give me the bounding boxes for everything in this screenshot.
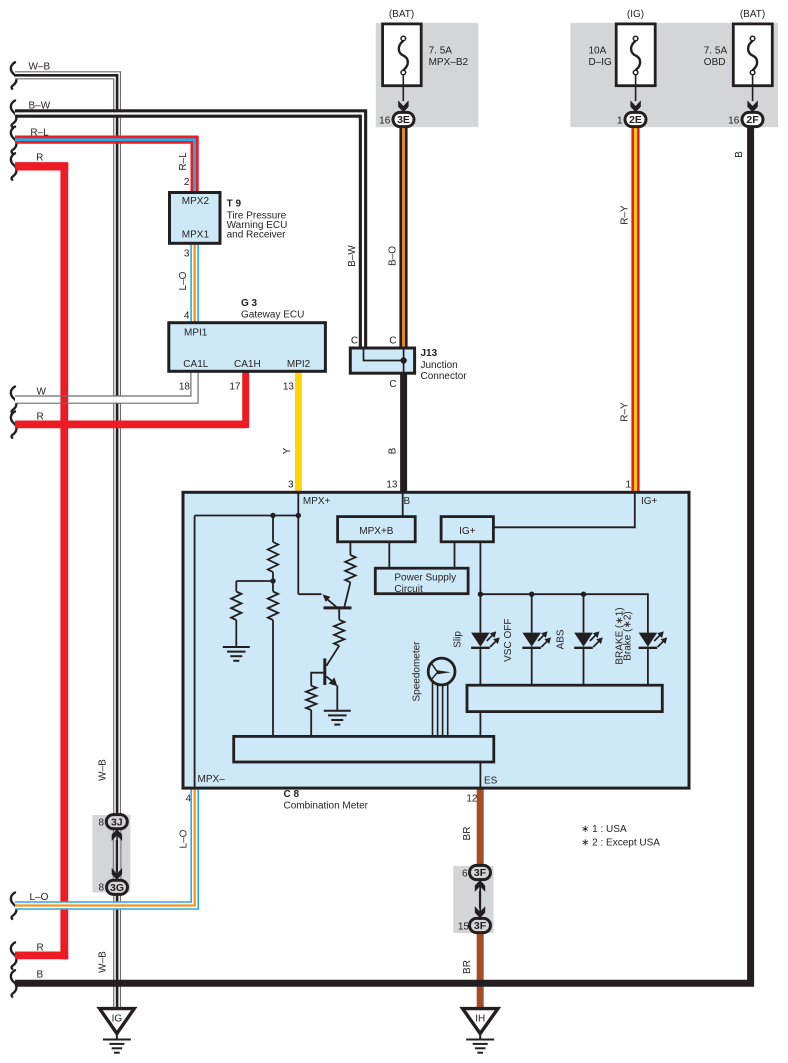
svg-text:ES: ES <box>484 776 498 787</box>
svg-text:B: B <box>387 447 398 454</box>
svg-text:Speedometer: Speedometer <box>412 641 423 702</box>
wire to Slip LED <box>479 594 481 632</box>
resistor R-b to ground <box>235 581 237 592</box>
transistor Q1 emitter arrow <box>323 594 331 602</box>
svg-text:8: 8 <box>98 882 104 893</box>
wire R middle from left edge to Gateway ECU CA1H <box>15 420 246 428</box>
svg-text:L–O: L–O <box>178 271 189 290</box>
block Power Supply Circuit box <box>375 568 468 594</box>
resistor R-a lower <box>272 581 274 592</box>
svg-text:B: B <box>37 970 44 981</box>
ground point IH stem <box>479 1034 481 1040</box>
svg-text:IH: IH <box>475 1014 485 1025</box>
svg-text:4: 4 <box>184 311 190 322</box>
fuse block background left (BAT) <box>376 23 479 127</box>
resistor R-c under MPX+B <box>349 542 351 555</box>
connector 3G <box>107 880 128 894</box>
junction connector J13 box <box>350 348 414 373</box>
svg-text:R–L: R–L <box>30 128 49 139</box>
wire B-W (black/white) from left edge to junction connector J13 <box>15 114 363 349</box>
svg-text:MPX–B2: MPX–B2 <box>429 57 469 68</box>
continuation symbol for wire R middle <box>11 411 17 437</box>
arrow into connector 2E <box>630 100 640 112</box>
resistor R-a upper <box>272 516 274 543</box>
svg-text:3F: 3F <box>474 867 487 879</box>
LED ABS <box>574 633 593 647</box>
svg-text:J13: J13 <box>421 348 438 359</box>
svg-text:Slip: Slip <box>453 631 464 648</box>
svg-text:BR: BR <box>462 960 473 974</box>
ECU G3 box <box>169 323 326 372</box>
svg-text:G 3: G 3 <box>241 298 258 309</box>
ground point IH triangle <box>463 1009 498 1034</box>
svg-text:B–W: B–W <box>29 100 51 111</box>
svg-text:R–L: R–L <box>178 152 189 171</box>
wire W-B (white/black) from connector 3G to ground IG <box>113 894 121 1009</box>
svg-text:OBD: OBD <box>704 57 726 68</box>
svg-text:3G: 3G <box>110 882 124 894</box>
svg-text:R: R <box>37 412 44 423</box>
continuation symbol for wire W-B <box>11 62 17 88</box>
LED BRAKE <box>639 633 658 647</box>
svg-text:13: 13 <box>386 480 398 491</box>
ground symbol under R-b <box>223 646 250 648</box>
ground point IG triangle <box>100 1009 135 1034</box>
node dot at MPX+ line <box>296 513 301 518</box>
svg-text:7. 5A: 7. 5A <box>704 46 728 57</box>
svg-text:C 8: C 8 <box>284 789 300 800</box>
continuation symbol for wire W <box>11 387 17 413</box>
node dot at resistor branch <box>270 513 275 518</box>
connector 3J <box>106 815 127 829</box>
svg-text:6: 6 <box>462 868 468 879</box>
continuation symbol for wire R bottom <box>11 942 17 968</box>
node dot lamp rail at ABS <box>581 592 586 597</box>
ECU T9 box <box>170 193 221 244</box>
block IG+ box <box>441 517 493 542</box>
connector 3F lower <box>470 918 491 932</box>
svg-text:B: B <box>734 151 745 158</box>
connector 2E <box>625 112 646 126</box>
svg-text:∗ 2 : Except USA: ∗ 2 : Except USA <box>581 838 660 849</box>
wire BR thin link between 3F connectors <box>479 880 481 919</box>
svg-text:B–O: B–O <box>387 246 398 266</box>
svg-text:C: C <box>351 336 358 347</box>
connector 3E <box>393 112 414 126</box>
fuse block background right (IG/BAT) <box>571 23 779 127</box>
svg-text:Power Supply: Power Supply <box>394 573 456 584</box>
svg-text:IG: IG <box>112 1014 123 1025</box>
speedometer gauge <box>428 658 455 685</box>
svg-text:13: 13 <box>283 381 295 392</box>
wire internal left vertical MPX- <box>194 516 196 789</box>
svg-text:2E: 2E <box>629 114 642 126</box>
wire IG+ to Power Supply Circuit <box>454 542 456 568</box>
node dot lamp rail at VSC OFF <box>529 592 534 597</box>
svg-text:W: W <box>37 387 47 398</box>
wire fuse MPX-B2 to connector 3E <box>402 75 404 101</box>
LED VSC OFF <box>522 633 541 647</box>
svg-text:B–W: B–W <box>347 245 358 267</box>
continuation symbol for wire B bottom <box>11 970 17 996</box>
svg-text:C: C <box>389 336 396 347</box>
wire MPX+ internal vertical <box>297 493 299 594</box>
continuation symbol for wire B-W <box>11 101 17 127</box>
node dot lamp rail at Slip <box>478 592 483 597</box>
wire ES vertical <box>479 712 481 788</box>
wire to VSC OFF LED <box>531 594 533 632</box>
svg-text:D–IG: D–IG <box>589 57 613 68</box>
wire IG+ to lamp rail <box>479 542 481 594</box>
wire IG+ pin entry <box>493 493 634 527</box>
connector block 3J/3G background <box>92 815 130 892</box>
svg-text:10A: 10A <box>589 46 607 57</box>
wire B pin to MPX+B box <box>402 493 404 517</box>
svg-text:∗ 1 : USA: ∗ 1 : USA <box>581 824 627 835</box>
svg-text:3: 3 <box>184 249 190 260</box>
wire MPX+ to transistor Q1 emitter <box>298 593 321 595</box>
svg-text:and Receiver: and Receiver <box>227 230 287 241</box>
svg-text:Circuit: Circuit <box>394 584 423 595</box>
svg-text:MPX+B: MPX+B <box>359 526 394 537</box>
block MPX+B box <box>338 517 416 542</box>
svg-text:3J: 3J <box>111 816 123 828</box>
svg-text:MPX2: MPX2 <box>182 196 210 207</box>
wire L-O (lightblue/orange) from Combination Meter pin 4 to left edge <box>15 789 195 906</box>
wire W-B (white/black) from left edge down to connector 3J <box>15 75 117 815</box>
wire B (black) from junction connector J13 to Combination Meter pin 13 <box>400 373 407 494</box>
meter bottom bus bar box <box>234 736 494 762</box>
svg-text:W–B: W–B <box>98 759 109 781</box>
svg-text:L–O: L–O <box>30 892 49 903</box>
svg-text:(IG): (IG) <box>627 9 644 20</box>
svg-text:(BAT): (BAT) <box>740 9 765 20</box>
transistor Q2 emitter <box>326 677 332 682</box>
transistor Q2 base lead <box>311 673 323 686</box>
transistor Q1 base bar <box>324 606 352 609</box>
arrow into connector 2F <box>747 100 757 112</box>
svg-text:MPX+: MPX+ <box>303 496 331 507</box>
svg-text:CA1L: CA1L <box>183 359 208 370</box>
svg-text:12: 12 <box>466 794 478 805</box>
svg-text:3: 3 <box>288 480 294 491</box>
svg-text:VSC OFF: VSC OFF <box>503 619 514 662</box>
svg-text:2F: 2F <box>746 114 759 126</box>
svg-text:B: B <box>404 496 411 507</box>
svg-text:L–O: L–O <box>179 829 190 848</box>
svg-text:1: 1 <box>625 480 631 491</box>
svg-text:2: 2 <box>184 177 190 188</box>
Combination Meter C8 box <box>183 492 689 788</box>
wire branch to second resistor <box>236 580 273 582</box>
resistor R-e at Q2 base <box>306 686 316 710</box>
connector 2F <box>742 112 763 126</box>
wire to ABS LED <box>583 594 585 632</box>
fuse 7.5A MPX-B2 box <box>383 24 422 86</box>
arrow up below 3F upper <box>475 880 485 892</box>
arrow into connector 3E <box>398 100 408 112</box>
lamp bus bar box <box>467 685 662 711</box>
svg-text:IG+: IG+ <box>641 496 658 507</box>
svg-text:R: R <box>37 942 44 953</box>
wire L-O (lightblue/orange) from Tire Pressure ECU pin 3 to Gateway ECU pin 4 <box>190 243 199 324</box>
fuse 7.5A OBD box <box>733 24 772 86</box>
fuse 10A D-IG symbol <box>633 36 638 41</box>
wire B-O (black/orange) from connector 3E to junction connector J13 <box>399 126 407 348</box>
wire between 3F connectors <box>479 891 481 908</box>
connector 3F upper <box>470 865 491 879</box>
continuation symbol for wire L-O <box>11 893 17 919</box>
wire B (black) from connector 2F down and across bottom to left edge <box>15 126 751 983</box>
arrow down above 3F lower <box>475 906 485 918</box>
arrow down above 3G <box>112 868 122 880</box>
svg-text:16: 16 <box>379 115 391 126</box>
continuation symbol for wire R top <box>11 153 17 179</box>
lamp rail horizontal <box>480 594 648 632</box>
junction connector J13 through wire <box>403 349 405 372</box>
wire R-L (red/blue) from left edge to Tire Pressure ECU pin 2 <box>15 140 195 192</box>
wire W-B thin link between 3J and 3G <box>116 829 118 880</box>
connector block 3F background <box>453 866 493 933</box>
svg-text:Combination Meter: Combination Meter <box>284 801 369 812</box>
svg-text:IG+: IG+ <box>459 526 476 537</box>
wire BR (brown) from Combination Meter ES to connector 3F <box>477 788 484 866</box>
svg-text:3E: 3E <box>397 114 410 126</box>
wire Y (yellow) from Gateway ECU MPI2 to Combination Meter MPX+ <box>295 372 302 494</box>
junction connector J13 bus wire <box>364 349 404 360</box>
wire W (white) outline edges <box>15 372 191 397</box>
svg-text:Gateway ECU: Gateway ECU <box>241 310 304 321</box>
svg-text:Connector: Connector <box>421 371 468 382</box>
svg-text:MPX–: MPX– <box>198 774 226 785</box>
svg-text:R–Y: R–Y <box>619 205 630 225</box>
wire between 3J and 3G <box>116 840 118 872</box>
svg-text:C: C <box>389 379 396 390</box>
speedometer connection wires <box>432 682 434 736</box>
svg-text:Junction: Junction <box>421 360 458 371</box>
svg-text:R: R <box>36 153 43 164</box>
svg-text:8: 8 <box>98 817 104 828</box>
wire fuse OBD to connector 2F <box>752 75 754 101</box>
svg-text:MPI1: MPI1 <box>184 328 208 339</box>
svg-text:18: 18 <box>179 381 191 392</box>
node dot between resistors <box>270 578 275 583</box>
fuse 7.5A MPX-B2 symbol <box>401 36 406 41</box>
ground symbol IH <box>466 1039 494 1041</box>
svg-text:15: 15 <box>458 921 470 932</box>
svg-text:MPX1: MPX1 <box>182 230 210 241</box>
svg-text:(BAT): (BAT) <box>389 9 414 20</box>
wire R-Y (red/yellow) from connector 2E to Combination Meter IG+ <box>631 126 639 493</box>
svg-text:1: 1 <box>617 115 623 126</box>
svg-text:BR: BR <box>462 827 473 841</box>
ground point IG stem <box>116 1034 118 1040</box>
arrow up below 3J <box>112 829 122 841</box>
svg-text:4: 4 <box>185 794 191 805</box>
svg-text:R–Y: R–Y <box>619 402 630 422</box>
svg-text:7. 5A: 7. 5A <box>429 46 453 57</box>
svg-text:16: 16 <box>728 115 740 126</box>
ground symbol IG <box>103 1039 131 1041</box>
wire MPX+B to Power Supply Circuit <box>388 542 390 568</box>
wire internal top horizontal <box>195 515 299 517</box>
continuation symbol for wire R-L <box>11 127 17 153</box>
junction connector J13 bus junction dot <box>400 357 406 363</box>
transistor Q2 base bar <box>323 658 326 685</box>
svg-text:3F: 3F <box>474 920 487 932</box>
svg-text:W–B: W–B <box>29 62 51 73</box>
wire fuse D-IG to connector 2E <box>635 75 637 101</box>
svg-text:MPI2: MPI2 <box>287 359 311 370</box>
wire Q1 base down <box>338 609 340 619</box>
fuse 10A D-IG box <box>616 24 655 86</box>
svg-text:CA1H: CA1H <box>234 359 261 370</box>
svg-text:Y: Y <box>282 447 293 454</box>
svg-text:ABS: ABS <box>556 629 567 649</box>
wire R bottom from left edge <box>15 952 68 960</box>
transistor Q1 collector <box>345 582 351 606</box>
svg-text:W–B: W–B <box>98 951 109 973</box>
svg-text:17: 17 <box>229 381 241 392</box>
wire R vertical trunk at left <box>60 163 68 959</box>
LED Slip <box>471 633 490 647</box>
svg-text:Brake (∗2): Brake (∗2) <box>623 611 634 661</box>
fuse 7.5A OBD symbol <box>750 36 755 41</box>
wire R top from left edge <box>15 162 68 170</box>
resistor R-d between Q1 and Q2 <box>334 620 344 646</box>
ground symbol under Q2 <box>324 710 351 712</box>
wire BR (brown) from connector 3F to ground IH <box>477 932 484 1008</box>
wire W (white) core from left edge to Gateway ECU CA1L <box>15 372 195 400</box>
svg-text:T 9: T 9 <box>227 199 242 210</box>
